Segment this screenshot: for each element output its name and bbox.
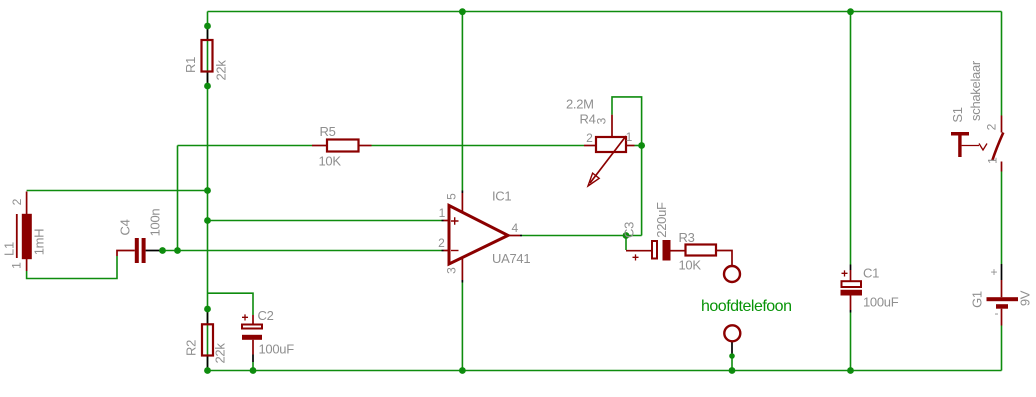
S1 pin2 stub — [1001, 116, 1003, 133]
svg-text:2: 2 — [10, 198, 24, 205]
pin opamp 1 — [442, 220, 444, 222]
headphone jack pad upper — [724, 266, 740, 282]
R3 right wire to jack — [716, 251, 732, 266]
resistor R5 — [312, 124, 372, 169]
pin opamp 2 — [442, 250, 444, 252]
S1 actuator stem — [958, 136, 961, 158]
G1 positive plate — [987, 297, 1019, 301]
wire right rail middle (S1 pin1 to G1) — [1001, 172, 1003, 265]
pin C1 bottom — [850, 310, 852, 313]
pin opamp 5 — [461, 191, 463, 194]
wire R5 to R4 — [372, 145, 585, 147]
C2 bottom pin — [252, 340, 254, 355]
wire opamp pin3 column lower — [461, 283, 463, 371]
S1 actuator T bar — [951, 132, 969, 136]
IC1 pin2 stub — [444, 250, 450, 252]
svg-text:schakelaar: schakelaar — [968, 60, 983, 121]
C4 left plate — [135, 238, 139, 263]
node top rail / C1 column — [847, 8, 854, 15]
svg-text:+: + — [632, 251, 639, 265]
IC1 minus input mark — [451, 250, 459, 252]
headphone jack pad lower — [724, 325, 740, 341]
node bottom rail C1 — [847, 367, 854, 374]
svg-text:22k: 22k — [212, 343, 227, 364]
PINS (black) — [146, 26, 1002, 371]
C3 left plate — [652, 241, 657, 259]
node headphone pin end — [729, 353, 735, 359]
S1 link line — [962, 145, 979, 147]
svg-text:+: + — [841, 267, 848, 281]
svg-text:4: 4 — [512, 221, 519, 235]
R5 body — [327, 140, 359, 152]
svg-text:L1: L1 — [1, 242, 16, 256]
pin C1 top — [850, 265, 852, 271]
svg-text:100uF: 100uF — [863, 295, 899, 310]
R4 right stub pin1 — [626, 145, 635, 147]
pin opamp 4 — [520, 235, 522, 237]
IC1 plus input mark — [451, 217, 459, 225]
pin opamp 3 — [461, 280, 463, 283]
wire right rail upper (to S1 pin 2) — [1001, 12, 1003, 116]
svg-text:hoofdtelefoon: hoofdtelefoon — [701, 298, 791, 315]
pin R2 top — [207, 309, 209, 324]
svg-text:220uF: 220uF — [654, 202, 669, 238]
IC1 pin1 stub — [444, 220, 450, 222]
svg-text:UA741: UA741 — [492, 251, 530, 266]
node bottom rail C2 — [250, 367, 257, 374]
R4 left stub pin2 — [584, 145, 596, 147]
svg-text:G1: G1 — [969, 291, 984, 308]
wire headphone jack to rail — [731, 356, 733, 371]
svg-text:-: - — [995, 306, 999, 320]
op-amp IC1 — [438, 189, 530, 281]
node bottom rail R2 — [204, 367, 211, 374]
IC1 pin5 stub — [461, 193, 463, 213]
wire R4 pin1 to node column — [635, 145, 642, 147]
node bottom rail IC column — [459, 367, 466, 374]
svg-text:1mH: 1mH — [31, 229, 46, 256]
wire opamp output row — [522, 235, 642, 237]
R1 body — [202, 40, 213, 72]
node R1 bottom — [204, 83, 211, 90]
pin R1 top — [207, 26, 209, 40]
C1 top pin — [850, 270, 852, 281]
node R2 top — [204, 306, 211, 313]
pin C2 bottom — [252, 355, 254, 363]
svg-text:10K: 10K — [319, 154, 342, 169]
L1 pin 1 — [26, 259, 28, 271]
svg-text:1: 1 — [986, 157, 1000, 164]
pin R1 bottom — [207, 72, 209, 87]
svg-text:R2: R2 — [183, 340, 198, 356]
svg-text:R4: R4 — [580, 112, 596, 127]
pin R2 bottom — [207, 356, 209, 371]
svg-text:1: 1 — [626, 130, 633, 144]
G1 top pin — [1001, 280, 1003, 297]
wire inverting input row (from C4) — [163, 250, 442, 252]
R4 body — [596, 137, 626, 152]
L1 core line — [16, 214, 18, 258]
node R4 pin1 — [638, 142, 645, 149]
C2 top pin — [252, 315, 254, 325]
svg-text:C3: C3 — [621, 222, 636, 238]
svg-text:1: 1 — [439, 206, 446, 220]
R4 wiper diagonal — [590, 136, 626, 183]
R3 body — [686, 245, 717, 256]
wire R5 left branch down to inverting row — [177, 146, 179, 251]
svg-text:22k: 22k — [213, 60, 228, 81]
svg-text:R3: R3 — [679, 230, 695, 245]
wire R4 wiper loop — [612, 97, 642, 236]
capacitor C1 — [841, 266, 899, 311]
L1 winding bar — [22, 214, 32, 259]
wire top rail — [208, 11, 1002, 13]
svg-text:2.2M: 2.2M — [566, 97, 594, 112]
node noninverting row — [204, 217, 211, 224]
resistor R2 — [183, 324, 227, 363]
wire L1 pin1 loop to C4 left pin — [27, 256, 117, 279]
wire R2 branch to C2 — [208, 293, 254, 315]
C3 left pin — [626, 250, 652, 252]
R2 body — [202, 324, 213, 355]
wire noninverting input row — [208, 220, 442, 222]
wire left column (through R1/R2) — [207, 12, 209, 371]
node L1 wire — [204, 187, 211, 194]
potentiometer R4 — [566, 97, 635, 187]
R5 left stub — [312, 145, 327, 147]
node top rail / IC column — [459, 8, 466, 15]
battery G1 — [969, 265, 1032, 326]
wire L1 to left column (node at 207.5,190.5) — [27, 190, 208, 192]
wire C1 column upper — [850, 12, 852, 265]
wire C1 column lower — [850, 313, 852, 371]
node R1 top — [204, 23, 211, 30]
S1 spring v — [979, 144, 987, 151]
node C4 output — [159, 247, 166, 254]
pin G1 top — [1001, 264, 1003, 280]
inductor L1 — [1, 192, 46, 272]
svg-text:3: 3 — [595, 117, 609, 124]
svg-text:R1: R1 — [183, 57, 198, 73]
svg-text:9V: 9V — [1017, 290, 1032, 306]
C1 bottom plate — [841, 290, 863, 296]
svg-text:5: 5 — [445, 193, 459, 200]
svg-text:100uF: 100uF — [259, 342, 295, 357]
wire R5 row — [178, 145, 313, 147]
G1 bottom pin — [1001, 309, 1003, 326]
C3 right plate — [663, 240, 671, 261]
wire output node down to C3 — [625, 236, 627, 251]
switch S1 — [950, 60, 1003, 171]
node bottom rail headphone — [729, 367, 736, 374]
C1 bottom pin — [850, 296, 852, 311]
IC1 pin4 stub — [508, 235, 520, 237]
pin C4 right — [146, 250, 163, 252]
svg-text:2: 2 — [985, 123, 999, 130]
wire bottom rail — [208, 370, 1002, 372]
R4 wiper stem pin3 — [611, 115, 613, 150]
wire right rail lower (G1 to bottom rail) — [1001, 326, 1003, 371]
G1 negative plate — [996, 304, 1008, 309]
R5 right stub — [359, 145, 372, 147]
svg-text:10K: 10K — [679, 258, 702, 273]
svg-text:100n: 100n — [147, 209, 162, 237]
node opamp output — [623, 232, 630, 239]
IC1 triangle — [449, 206, 508, 265]
L1 pin 2 — [26, 192, 28, 215]
C4 left pin — [117, 251, 135, 257]
S1 pin1 stub — [1001, 162, 1003, 172]
svg-text:2: 2 — [438, 236, 445, 250]
svg-text:C1: C1 — [863, 266, 879, 281]
svg-text:C4: C4 — [117, 219, 132, 235]
pin headphone jack sleeve — [731, 342, 733, 356]
svg-text:IC1: IC1 — [492, 189, 511, 204]
resistor R1 — [183, 40, 229, 81]
svg-text:C2: C2 — [258, 308, 274, 323]
R4 wiper arrowhead — [588, 173, 599, 186]
S1 lever — [992, 133, 1003, 161]
capacitor C3 — [621, 202, 685, 265]
wire opamp pin5 column upper — [461, 12, 463, 191]
C3 right pin — [671, 250, 686, 252]
resistor R3 — [679, 230, 733, 273]
capacitor C4 — [117, 209, 162, 263]
svg-text:3: 3 — [445, 267, 459, 274]
C2 top plate — [242, 325, 262, 329]
svg-text:R5: R5 — [320, 124, 336, 139]
C2 bottom plate — [242, 335, 262, 340]
node R5 branch — [174, 247, 181, 254]
C1 top plate — [842, 281, 862, 287]
wire C2 bottom to rail — [252, 362, 254, 371]
capacitor C2 — [241, 308, 294, 357]
svg-text:1: 1 — [10, 262, 24, 269]
IC1 pin3 stub — [461, 259, 463, 281]
svg-text:2: 2 — [586, 131, 593, 145]
svg-text:+: + — [241, 311, 248, 325]
C4 right plate — [142, 238, 146, 263]
svg-text:S1: S1 — [950, 107, 965, 122]
svg-text:+: + — [990, 265, 997, 279]
